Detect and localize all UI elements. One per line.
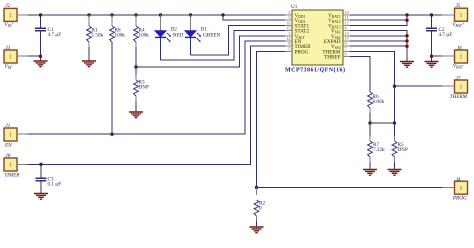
ground under C2 — [425, 62, 439, 68]
node rail-R8 — [110, 13, 113, 16]
node R6-R7 — [368, 121, 371, 124]
ground under R1 — [82, 61, 96, 67]
ground under R3 — [129, 112, 143, 118]
wire THREF to R6 — [350, 57, 370, 92]
svg-text:DNP: DNP — [139, 84, 149, 90]
wire VSS merge rows 4-7 — [350, 31, 407, 62]
wire STAT1 to D1 — [191, 25, 286, 55]
node rail-R1 — [87, 13, 90, 16]
connector J5 VBAT+ — [442, 3, 468, 28]
node TIMER-C3 — [39, 163, 42, 166]
svg-text:7.32k: 7.32k — [373, 147, 385, 153]
svg-text:100k: 100k — [139, 32, 150, 38]
connector J6 VBAT- — [442, 46, 468, 70]
svg-text:THERM: THERM — [450, 94, 468, 100]
ground under C1/J3 — [34, 61, 48, 67]
connector J1 EN — [4, 123, 28, 149]
svg-text:MCP73861/QFN(16): MCP73861/QFN(16) — [285, 66, 345, 73]
svg-text:THREF: THREF — [324, 55, 341, 61]
connector J4 PROG — [442, 176, 468, 201]
node C2-J6 — [430, 55, 433, 58]
node R4-R3-VSET — [134, 65, 137, 68]
wire R8 bottom to EN line — [111, 42, 113, 134]
connector J2 VIN+ — [4, 3, 28, 28]
wire D2 cathode — [160, 38, 162, 61]
wire EN line to J1 — [28, 41, 285, 134]
resistor R1 1.50k — [87, 15, 104, 61]
resistor R4 100k — [134, 15, 150, 67]
svg-text:PROG: PROG — [295, 49, 309, 55]
connector J7 THERM — [442, 76, 468, 100]
svg-text:6: 6 — [345, 52, 347, 57]
op-amp U1 MCP73861 — [285, 4, 350, 73]
capacitor C1 4.7uF — [35, 27, 61, 38]
wire VBAT row3 corner up — [350, 15, 407, 25]
wire VBAT row2 — [350, 19, 407, 21]
node rail-C1 — [39, 13, 42, 16]
resistor R5 DNP — [392, 123, 408, 170]
node VSS3 — [405, 45, 408, 48]
LED D1 GREEN — [185, 15, 221, 42]
node rail-R4 — [134, 13, 137, 16]
capacitor C3 0.1uF — [36, 177, 62, 188]
ground under R5 — [388, 170, 402, 176]
svg-text:0.1 µF: 0.1 µF — [48, 182, 62, 188]
svg-text:PROG: PROG — [452, 195, 467, 201]
svg-text:EN: EN — [4, 143, 12, 149]
connector J3 VIN- — [4, 45, 28, 70]
wire VBAT row1 to J5 — [350, 14, 442, 16]
wire PROG line to J4 — [257, 51, 443, 187]
resistor R6 8.06k — [368, 92, 385, 123]
resistor R8 100k — [110, 15, 126, 42]
node VBAT1 — [405, 13, 408, 16]
svg-text:4.7 µF: 4.7 µF — [439, 32, 453, 38]
node VSS2 — [405, 34, 408, 37]
connector J8 TIMER — [4, 153, 28, 179]
wire THERM down to node and J7 — [350, 51, 395, 123]
node THERM-J7 — [393, 85, 396, 88]
resistor R3 DNP — [134, 67, 149, 112]
node rail-D1 — [189, 13, 192, 16]
node R5-THERM — [393, 121, 396, 124]
svg-text:TIMER: TIMER — [4, 172, 20, 178]
ground under R7 — [363, 170, 377, 176]
wire J3 to ground column — [28, 55, 41, 57]
svg-text:RED: RED — [173, 33, 184, 39]
right pin stubs — [343, 15, 350, 57]
svg-text:100k: 100k — [115, 32, 126, 38]
node rail-D2 — [159, 13, 162, 16]
wire TIMER line to J8 — [28, 46, 285, 164]
wire C2 column — [431, 15, 433, 28]
LED D2 RED — [155, 15, 184, 42]
svg-text:5: 5 — [288, 46, 290, 51]
wire VSET to R4/R3 divider — [136, 36, 285, 67]
node EN-R8 — [110, 133, 113, 136]
node C2 top — [430, 13, 433, 16]
node VSS-EXPAD — [405, 39, 408, 42]
svg-text:DNP: DNP — [398, 147, 408, 153]
ground VSS — [400, 62, 414, 68]
svg-text:0: 0 — [259, 206, 262, 212]
node VBAT2 — [405, 19, 408, 22]
wire thermistor node line — [370, 122, 395, 124]
svg-text:1.50k: 1.50k — [92, 32, 104, 38]
wire main VDD rail — [28, 14, 285, 16]
node rail-VDD2 — [221, 13, 224, 16]
wire C2 node to J6 — [432, 55, 443, 57]
node PROG-R2 — [255, 186, 258, 189]
wire C1 column — [40, 15, 42, 28]
wire C3 column — [40, 164, 42, 178]
resistor R2 0 — [254, 188, 265, 228]
ground under C3 — [34, 194, 48, 200]
left pin stubs — [285, 15, 292, 51]
capacitor C2 4.7uF — [426, 27, 452, 38]
wire VDD2 jog: pin row2 to rail — [223, 15, 285, 20]
svg-text:U1: U1 — [291, 4, 298, 10]
svg-text:8.06k: 8.06k — [373, 99, 385, 105]
resistor R7 7.32k — [368, 123, 385, 170]
svg-text:GREEN: GREEN — [203, 33, 221, 39]
wire D1 cathode — [190, 38, 192, 56]
wire STAT2 to D2 — [161, 31, 286, 61]
svg-text:4.7 µF: 4.7 µF — [48, 32, 62, 38]
node J3-gnd — [39, 55, 42, 58]
ground under R2 — [250, 227, 264, 233]
